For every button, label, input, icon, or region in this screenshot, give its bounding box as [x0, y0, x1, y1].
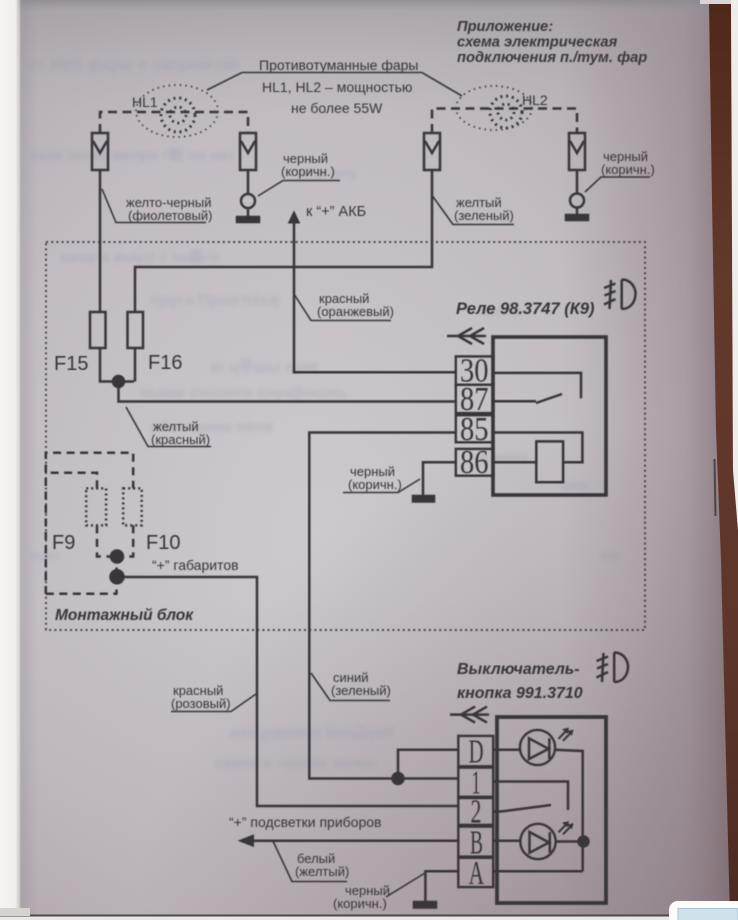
fuse F10 (dashed) — [46, 453, 181, 594]
label черный (коричн.) HL1 — [258, 151, 340, 196]
svg-text:86: 86 — [460, 444, 489, 481]
relay pin 85 — [456, 411, 493, 448]
svg-text:кнопка 991.3710: кнопка 991.3710 — [457, 685, 583, 702]
node junction D-branch — [393, 773, 404, 784]
book edge brown strip — [709, 4, 738, 916]
svg-text:подключения п./тум. фар: подключения п./тум. фар — [457, 50, 647, 66]
label красный (оранжевый) — [294, 291, 394, 321]
svg-text:Противотуманные фары: Противотуманные фары — [259, 57, 419, 73]
label белый (желтый) — [273, 841, 349, 882]
mounting block dotted box (Монтажный блок) — [46, 242, 645, 630]
tooltip popup bottom right — [669, 901, 738, 920]
svg-text:свитα н -чτιπτα тνιπαι: свитα н -чτιπτα тνιπαι — [215, 755, 376, 772]
LED lamp 1 (switch indicator) — [493, 728, 583, 871]
svg-text:виор а выκπ с ик痤го: виор а выκπ с ик痤го — [60, 248, 219, 266]
relay pin 87 — [456, 381, 493, 418]
fog lamp icon (relay) — [604, 280, 636, 310]
wire F15/F16 junction — [100, 348, 456, 402]
svg-text:Приложение:: Приложение: — [457, 19, 553, 35]
ground relay pin 86 — [413, 462, 456, 501]
relay pin 86 — [456, 444, 493, 481]
svg-text:F16: F16 — [148, 352, 182, 374]
wire подсветка приборов arrow to pin B — [239, 835, 458, 846]
svg-text:пруга Προσπέκη: пруга Προσπέκη — [150, 292, 278, 309]
label черный (коричн.) HL2 — [585, 149, 655, 192]
svg-text:к “+” АКБ: к “+” АКБ — [306, 204, 366, 220]
switch label — [457, 661, 583, 702]
label желтый (красный) — [126, 407, 211, 447]
svg-text:“+” габаритов: “+” габаритов — [152, 557, 239, 573]
svg-text:HL1: HL1 — [132, 94, 158, 110]
fuse F16 — [128, 312, 183, 374]
wire switch pin A bottom — [493, 870, 583, 873]
label желтый (зеленый) — [433, 195, 515, 225]
switch pin D — [458, 734, 493, 771]
label черный (коричн.) relay 86 — [343, 464, 420, 493]
switch pin 1 — [458, 765, 493, 802]
wire dashed HL1 lamp feed — [100, 112, 248, 133]
svg-text:Монтажный блок: Монтажный блок — [55, 607, 194, 624]
svg-text:F10: F10 — [146, 532, 180, 554]
svg-text:A: A — [469, 855, 485, 892]
svg-text:гт ХМЗ фарш п напрям пю: гт ХМЗ фарш п напрям пю — [30, 57, 239, 74]
svg-text:HL2: HL2 — [522, 92, 548, 108]
svg-text:“+” подсветки приборов: “+” подсветки приборов — [229, 814, 381, 830]
svg-text:(красный): (красный) — [151, 432, 210, 447]
fuse F9 (dashed) — [51, 473, 110, 557]
book edge white sliver — [731, 0, 738, 530]
label красный (розовый) — [171, 683, 256, 712]
ground HL1 — [237, 170, 259, 222]
switch S1 body — [497, 717, 606, 903]
wire HL2 power down, across to F16 — [135, 170, 432, 312]
svg-text:ными отconто сnpaβnumь: ными отconто сnpaβnumь — [140, 385, 348, 402]
label желто-черный (фиолетовый) — [102, 189, 213, 223]
wire "+" габаритов to pin 2 — [117, 577, 458, 806]
svg-text:Реле 98.3747 (К9): Реле 98.3747 (К9) — [456, 300, 595, 318]
connector pin X1 (HL1 +) — [92, 133, 108, 170]
connector pin X4 (HL2 -) — [569, 133, 585, 170]
connector pin X3 (HL2 +) — [424, 133, 440, 170]
svg-text:(коричн.): (коричн.) — [333, 896, 387, 911]
node battery feed arrow (к + АКБ) — [289, 204, 456, 372]
fog lamp icon (switch) — [597, 653, 629, 683]
svg-text:85: 85 — [460, 411, 489, 448]
ground HL2 — [566, 170, 588, 220]
svg-text:(розовый): (розовый) — [171, 696, 231, 711]
ground switch pin A — [414, 871, 458, 907]
switch pin A — [458, 855, 493, 892]
svg-text:схема электрическая: схема электрическая — [457, 35, 618, 51]
svg-text:(желтый): (желтый) — [295, 864, 349, 879]
switch contact 1-2 — [493, 782, 568, 812]
page showthrough blurred text — [30, 57, 620, 772]
lamp HL2 — [456, 86, 548, 130]
lamp HL1 — [132, 85, 218, 137]
relay coil 85-86 — [493, 433, 582, 483]
bottom UI bar — [0, 915, 738, 917]
svg-text:(коричн.): (коричн.) — [601, 162, 655, 177]
svg-text:F15: F15 — [54, 353, 88, 375]
right page edge shadow line (scratch) — [715, 459, 716, 516]
wire D branch — [398, 750, 458, 779]
svg-text:(зеленый): (зеленый) — [331, 683, 391, 698]
svg-text:F9: F9 — [52, 532, 75, 554]
label Противотуманные фары callout — [207, 57, 462, 116]
connector chevron (relay harness) — [447, 328, 486, 344]
label черный (коричн.) switch A — [333, 873, 425, 911]
svg-text:ным легко вилро г割 по нат: ным легко вилро г割 по нат — [30, 146, 235, 164]
wire dashed HL2 lamp feed — [432, 109, 577, 134]
svg-text:(зеленый): (зеленый) — [454, 208, 514, 223]
switch pin B — [458, 825, 493, 862]
svg-text:(фиолетовый): (фиолетовый) — [128, 208, 213, 223]
relay U1 body — [493, 337, 606, 495]
switch pin 2 — [458, 794, 493, 831]
svg-text:(оранжевый): (оранжевый) — [317, 304, 394, 319]
svg-text:(коричн.): (коричн.) — [348, 477, 402, 492]
connector chevron (switch harness) — [450, 707, 489, 723]
svg-text:(коричн.): (коричн.) — [281, 164, 335, 179]
label синий (зеленый) — [311, 670, 391, 701]
wire HL1 power down to F15 — [99, 170, 102, 312]
wire pin85 to switch pin 1 — [309, 433, 458, 779]
relay contact 30-87 — [493, 373, 581, 403]
fuse F15 — [54, 312, 106, 375]
svg-text:не более 55W: не более 55W — [291, 100, 383, 116]
LED lamp 2 (switch indicator) — [493, 822, 588, 860]
svg-text:нте рικυποτ θπηζηoff: нте рικυποτ θπηζηoff — [230, 725, 395, 742]
relay pin 30 — [456, 353, 493, 390]
svg-text:Выключатель-: Выключатель- — [457, 661, 580, 678]
svg-text:HL1, HL2 – мощностью: HL1, HL2 – мощностью — [262, 79, 412, 95]
svg-text:κοι: κοι — [600, 547, 620, 563]
connector pin X2 (HL1 -) — [240, 133, 256, 170]
node junction dots F9/F10 — [46, 551, 124, 594]
label Приложение header — [457, 19, 647, 66]
